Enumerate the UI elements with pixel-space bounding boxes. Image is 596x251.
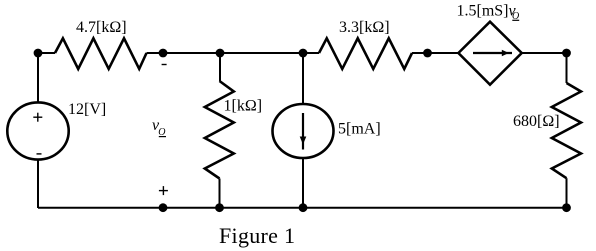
wire: left branch down from top-left corner	[34, 49, 43, 102]
minus sign of v_o at node A	[162, 64, 167, 65]
svg-text:12[V]: 12[V]	[68, 101, 106, 118]
wire: I1 bottom lead	[302, 157, 304, 208]
wire: node D to dependent source U1	[428, 52, 459, 54]
dependent current source U1 diamond body	[458, 22, 521, 85]
node E junction dot (top of R4)	[562, 49, 571, 58]
wire top rail: left node to R1	[38, 52, 55, 54]
wire: R1 right lead to node A	[147, 52, 164, 54]
svg-text:1[kΩ]: 1[kΩ]	[224, 98, 263, 115]
wire: I1 top lead	[302, 53, 304, 105]
dependent source U1 label 1.5[mS]v_Q	[457, 3, 520, 23]
svg-text:5[mA]: 5[mA]	[338, 121, 381, 138]
svg-text:3.3[kΩ]: 3.3[kΩ]	[339, 19, 390, 36]
wire: R3 top lead	[219, 53, 221, 81]
node H junction dot (bottom of I1)	[299, 203, 308, 212]
svg-text:680[Ω]: 680[Ω]	[513, 113, 560, 130]
wire: node B to node C	[220, 52, 303, 54]
wire: bottom rail	[38, 207, 567, 209]
voltage source V1 circle	[7, 102, 68, 159]
node D junction dot	[423, 49, 432, 58]
node B junction dot (top of R3)	[216, 49, 225, 58]
wire: node A to node B	[163, 52, 220, 54]
resistor R3 1[kΩ] zigzag (vertical)	[205, 81, 234, 179]
wire: R3 bottom lead	[219, 179, 221, 208]
node G junction dot (bottom of R3)	[215, 203, 224, 212]
node F junction dot (bottom, v_o plus terminal)	[159, 203, 168, 212]
svg-text:Figure 1: Figure 1	[219, 223, 295, 248]
svg-text:4.7[kΩ]: 4.7[kΩ]	[76, 19, 127, 36]
wire: R4 bottom lead	[566, 178, 568, 208]
wire: R2 to node D	[412, 52, 428, 54]
node label v_Q (voltage across R3)	[152, 117, 166, 138]
wire: R4 top lead	[566, 53, 568, 83]
current source I1 arrow (points down)	[300, 113, 307, 150]
wire: node C to R2	[303, 52, 319, 54]
resistor R2 3.3[kΩ] zigzag	[319, 38, 412, 69]
resistor R4 680[Ω] zigzag (vertical)	[552, 83, 581, 178]
dependent source U1 arrow (points right)	[473, 50, 512, 57]
resistor R1 4.7[kΩ] zigzag	[55, 38, 147, 69]
node C junction dot (top of I1)	[299, 49, 308, 58]
voltage source V1 plus sign	[33, 113, 42, 122]
svg-text:1.5[mS]v: 1.5[mS]v	[457, 3, 517, 20]
wire: V1 bottom lead to bottom rail	[37, 160, 39, 208]
node A junction dot (top, v_o minus terminal)	[159, 49, 168, 58]
node I junction dot (bottom right corner)	[562, 203, 571, 212]
voltage source V1 minus sign	[37, 153, 42, 154]
wire: U1 to node E	[522, 52, 567, 54]
plus sign of v_o above node F	[159, 186, 168, 195]
current source I1 circle	[273, 104, 334, 158]
